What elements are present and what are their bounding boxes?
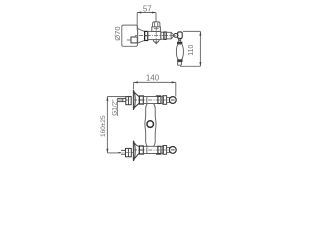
inlet square on flange (131, 37, 137, 43)
upper body stub (156, 95, 161, 98)
svg-text:Ø70: Ø70 (113, 26, 122, 40)
upper ring2 (161, 97, 164, 103)
upper inlet pipe (117, 98, 126, 101)
valve body (148, 31, 161, 39)
bonnet cross centerline (154, 28, 159, 30)
handle top ferrule (177, 42, 182, 44)
upper nut top line merged with extension (117, 96, 132, 98)
upper dark nut (139, 96, 143, 104)
lower row centerline (133, 149, 169, 151)
svg-text:110: 110 (188, 45, 195, 56)
upper cylinder (163, 96, 167, 105)
lower valve body (143, 146, 158, 153)
upper handle ball (169, 97, 176, 104)
lower cylinder (163, 146, 167, 155)
mixer column (145, 104, 156, 147)
dimension 140 line (134, 82, 176, 96)
lower body stub (156, 153, 161, 156)
handle neck (178, 39, 181, 42)
inlet centerline dash (127, 39, 131, 41)
lower ring2 (161, 147, 164, 154)
svg-text:160±25: 160±25 (100, 115, 107, 137)
porcelain grip (176, 44, 183, 60)
grip bottom ferrule (178, 60, 183, 62)
lower handle ball (169, 147, 176, 154)
upper union nut (126, 97, 131, 105)
cylinder to handle (166, 32, 171, 39)
lower flange lens (133, 141, 135, 161)
body right section (161, 32, 164, 39)
lower dark nut (139, 146, 143, 154)
upper valve body (143, 97, 158, 104)
upper stem (167, 98, 170, 103)
upper body end ring (158, 97, 161, 104)
svg-text:57: 57 (143, 4, 152, 13)
grip tip (178, 62, 182, 65)
lower body end ring (158, 146, 161, 153)
upper flange flare (135, 93, 139, 108)
ball joint (174, 34, 178, 38)
G1/2 leader line (116, 98, 118, 116)
bonnet base (152, 27, 161, 32)
dimension 160+-25 lines (107, 97, 120, 153)
lower union nut (126, 148, 132, 156)
dimension 57 arrows (137, 12, 156, 14)
dimension 110 lines (180, 31, 200, 66)
upper flange lens (133, 90, 135, 110)
ring (164, 32, 166, 39)
side view main centerline (139, 35, 179, 37)
lower inlet centerline (118, 151, 133, 153)
shower outlet circle (147, 121, 154, 128)
lower inlet pipe (121, 150, 126, 154)
dimension 57 line (137, 13, 156, 31)
lower flange flare (135, 143, 139, 158)
dimension 160+-25 arrows (106, 97, 108, 153)
svg-text:140: 140 (146, 74, 160, 83)
inlet square step (135, 36, 137, 37)
handle hub (178, 32, 183, 39)
wall flange (side) (122, 25, 138, 46)
dimension 110 arrows (199, 31, 201, 66)
bonnet cap (153, 22, 160, 27)
dark ring nut (145, 31, 148, 40)
body vertical centerline (155, 32, 157, 44)
waist joint (171, 32, 174, 38)
dimension 140 arrows (134, 81, 176, 83)
bell cover (138, 28, 145, 43)
lower stem (167, 147, 170, 152)
outlet under body (153, 40, 159, 42)
upper row centerline (118, 99, 170, 101)
